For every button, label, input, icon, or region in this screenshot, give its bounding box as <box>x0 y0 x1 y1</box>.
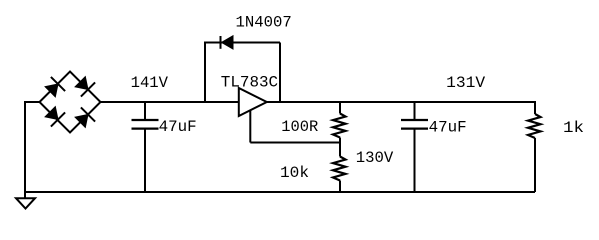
bridge rectifier diamond outline <box>40 72 101 133</box>
svg-text:1k: 1k <box>563 119 584 137</box>
resistor 1k top lead <box>534 101 536 114</box>
wire: bridge left corner to left vertical <box>25 101 40 103</box>
capacitor C1 47uF plates <box>132 120 159 129</box>
diode 1N4007 (cathode left) <box>221 36 234 49</box>
resistor 100R bottom lead <box>339 138 341 143</box>
resistor 1k zigzag <box>528 114 541 138</box>
resistor 10k top lead <box>339 143 341 157</box>
wire: main rail regulator output to 1k corner <box>267 101 535 103</box>
wire: protection loop top <box>204 42 280 44</box>
capacitor C1 47uF top lead <box>144 101 146 120</box>
wire: main rail bridge output to regulator input <box>101 101 239 103</box>
capacitor C2 47uF plates <box>401 120 428 129</box>
wire: adj to divider junction <box>250 142 340 144</box>
resistor 10k bottom lead <box>339 181 341 193</box>
svg-text:47uF: 47uF <box>159 118 197 136</box>
svg-text:100R: 100R <box>281 118 318 136</box>
ground <box>16 192 35 209</box>
capacitor C2 47uF bottom lead <box>414 129 416 192</box>
svg-text:10k: 10k <box>280 164 309 182</box>
resistor 100R top lead <box>339 101 341 114</box>
resistor 100R zigzag <box>333 114 346 138</box>
svg-text:131V: 131V <box>446 74 485 92</box>
svg-text:141V: 141V <box>131 74 169 92</box>
wire: ground rail <box>25 191 535 193</box>
resistor 1k bottom lead <box>534 138 536 192</box>
wire: protection loop right leg <box>279 43 281 103</box>
svg-text:TL783C: TL783C <box>221 74 278 92</box>
svg-text:1N4007: 1N4007 <box>236 14 292 32</box>
svg-text:47uF: 47uF <box>429 119 467 137</box>
resistor 10k zigzag <box>333 157 346 181</box>
wire: protection loop left leg <box>204 43 206 103</box>
wire: left vertical down to ground rail <box>24 101 26 192</box>
capacitor C1 47uF bottom lead <box>144 129 146 192</box>
regulator U1 TL783C triangle <box>239 88 267 116</box>
diode bridge upper-right (anode top corner, cathode right corner) <box>75 77 95 97</box>
diode bridge lower-right (anode bottom corner, cathode right corner) <box>75 107 95 127</box>
svg-text:130V: 130V <box>356 149 394 167</box>
capacitor C2 47uF top lead <box>414 101 416 120</box>
diode bridge upper-left (anode left corner, cathode top corner) <box>45 77 65 97</box>
wire: regulator adj pin down <box>249 110 251 143</box>
diode bridge lower-left (anode left corner, cathode bottom corner) <box>45 107 65 127</box>
